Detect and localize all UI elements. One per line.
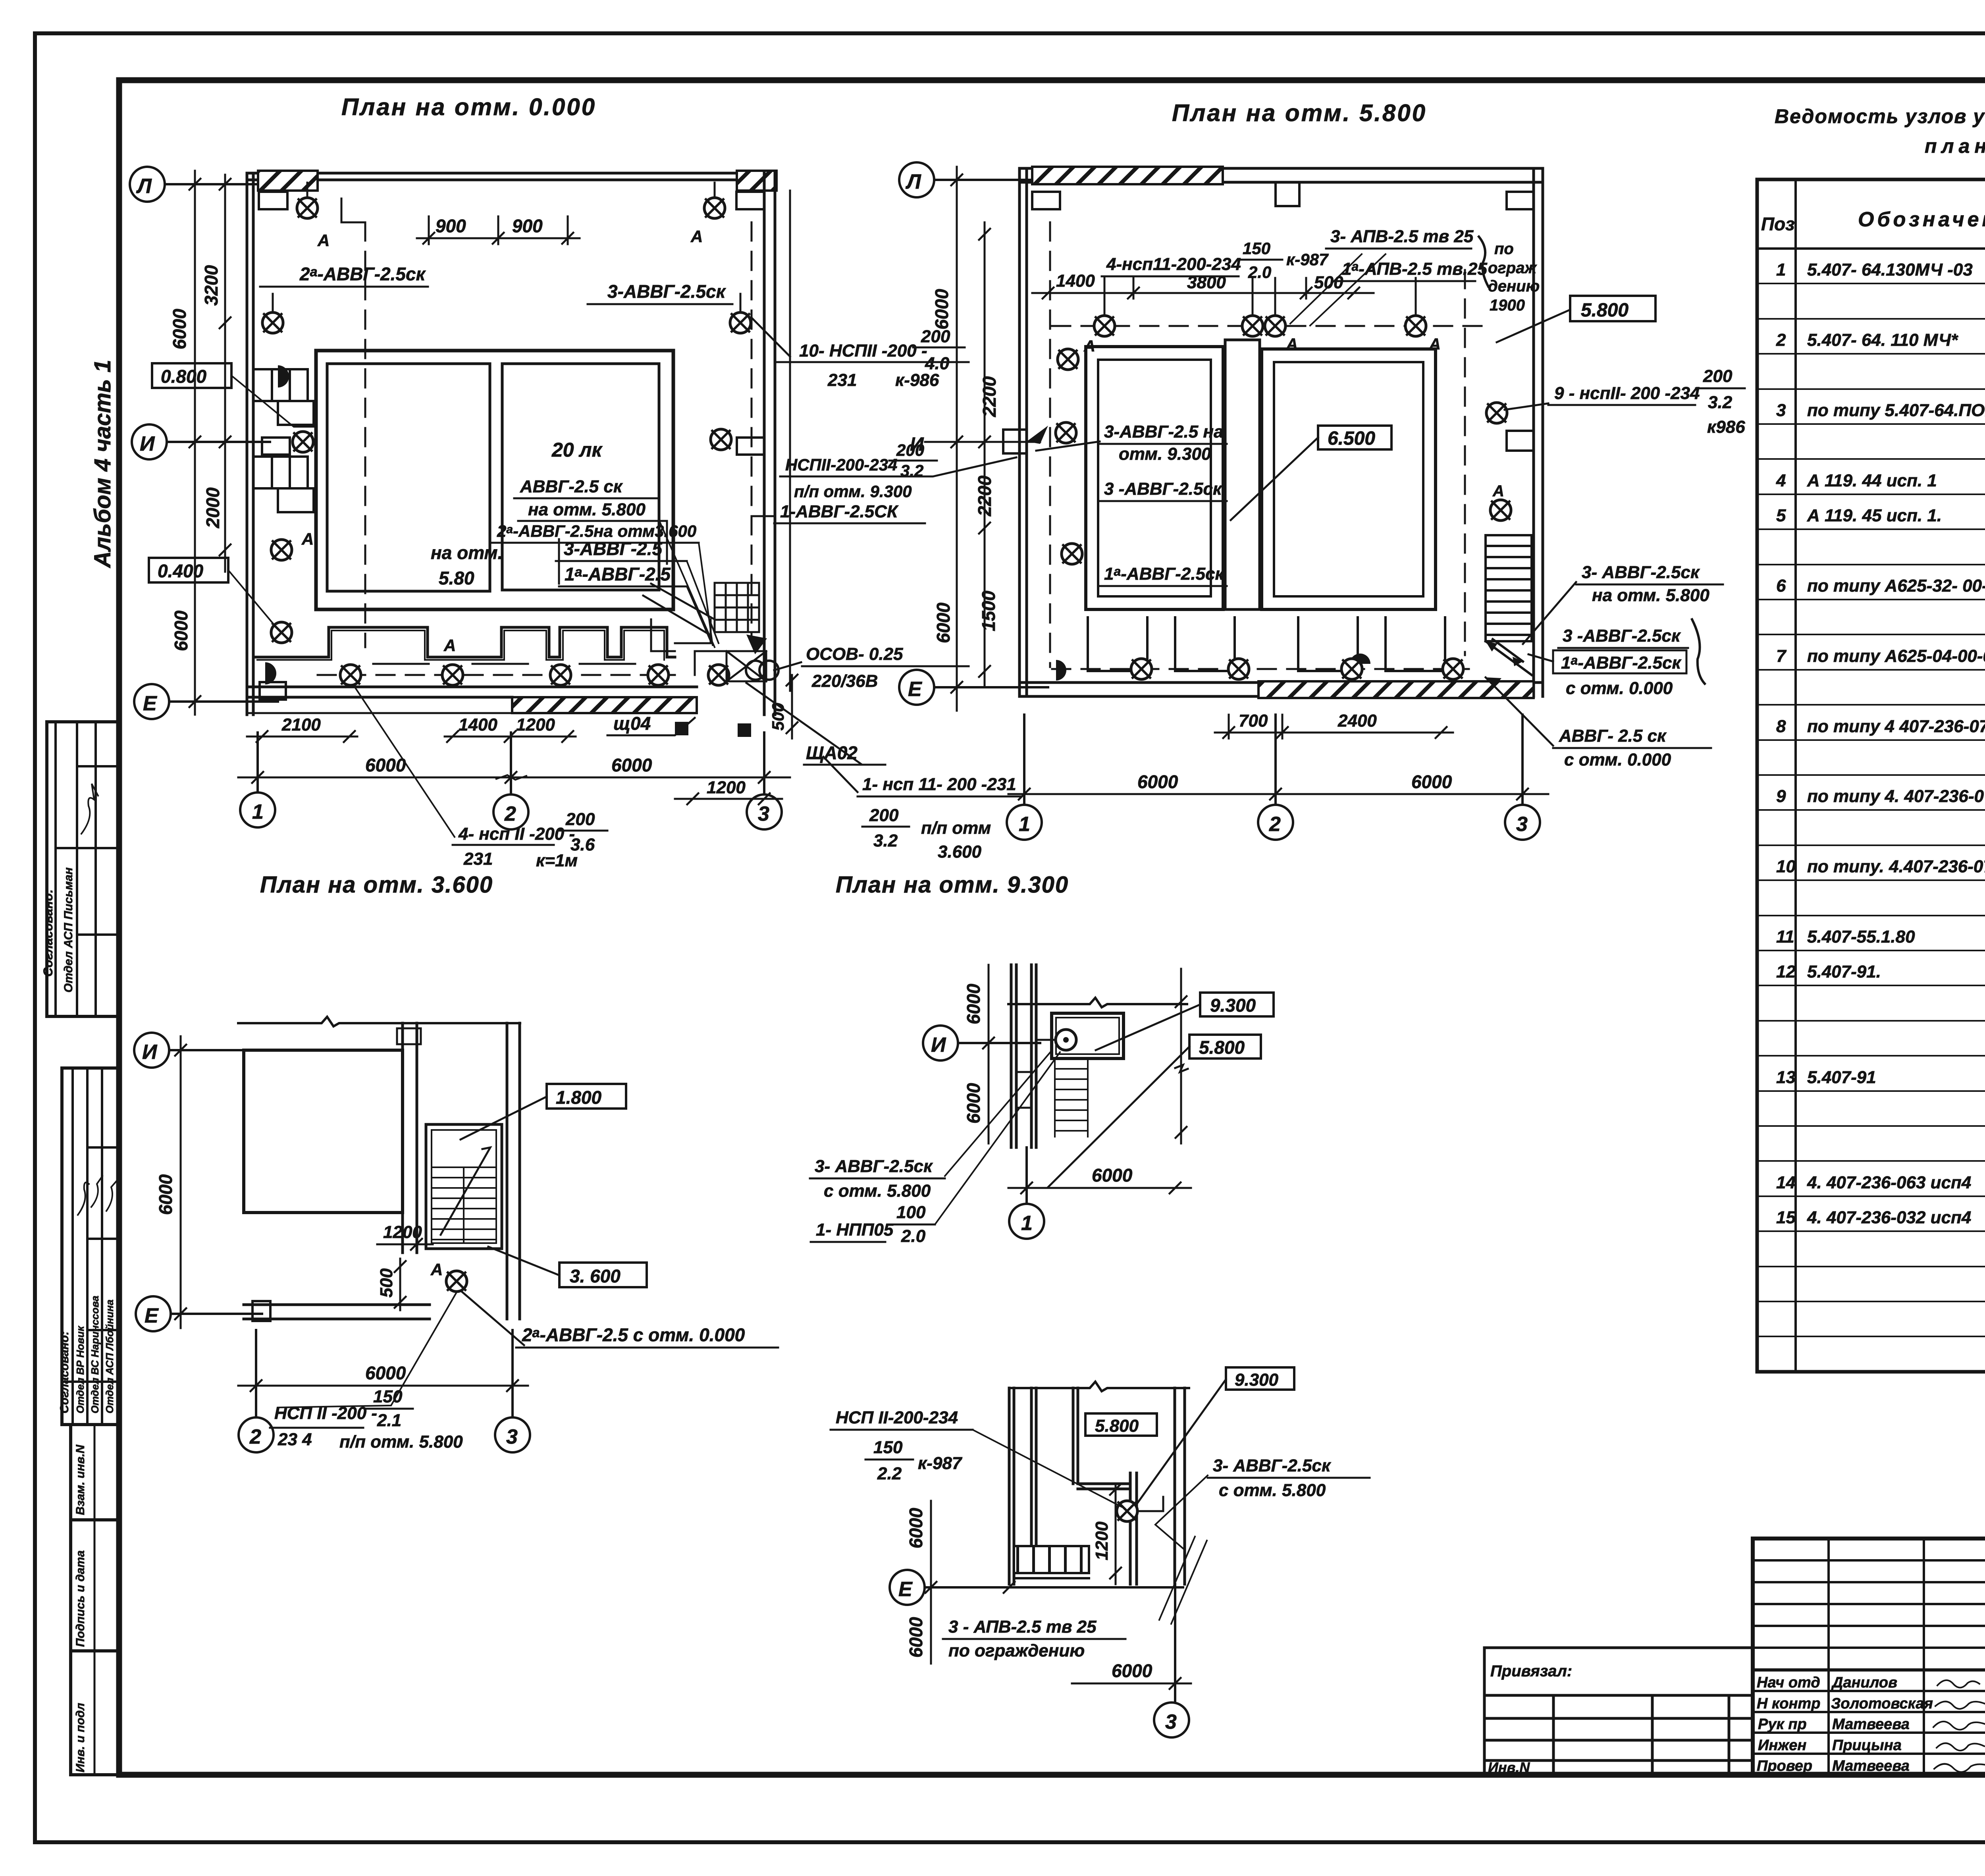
svg-text:1: 1	[252, 800, 264, 823]
svg-text:А: А	[1083, 337, 1095, 355]
svg-text:НСПII-200-234: НСПII-200-234	[785, 455, 897, 474]
svg-text:2а-АВВГ-2.5 с отм. 0.000: 2а-АВВГ-2.5 с отм. 0.000	[522, 1325, 745, 1345]
plan1 corner wiring zigzags	[643, 584, 727, 675]
plan93b mark 5.800	[1085, 1413, 1157, 1436]
plan2 corner arrows	[1486, 639, 1532, 675]
svg-text:4: 4	[1776, 471, 1786, 490]
svg-text:150: 150	[873, 1438, 903, 1457]
svg-text:ограж: ограж	[1488, 259, 1537, 277]
svg-text:А 119. 44 исп. 1: А 119. 44 исп. 1	[1807, 471, 1937, 490]
svg-text:по типу А625-32- 00-00: по типу А625-32- 00-00	[1807, 576, 1985, 596]
svg-text:500: 500	[377, 1268, 396, 1298]
svg-text:с отм. 0.000: с отм. 0.000	[1566, 679, 1673, 698]
svg-text:Е: Е	[908, 678, 922, 701]
plan93a top line	[1008, 998, 1187, 1007]
plan2 building left wall	[1019, 168, 1027, 696]
plan1 feed arrow bottom	[265, 662, 276, 684]
plan93a mid block	[1016, 1072, 1031, 1108]
plan1 wiring dashed vertical	[364, 222, 366, 647]
svg-text:2000: 2000	[202, 487, 223, 528]
svg-text:5.80: 5.80	[439, 568, 474, 588]
svg-text:4-нсп11-200-234: 4-нсп11-200-234	[1106, 255, 1241, 274]
svg-text:по типу А625-04-00-00: по типу А625-04-00-00	[1807, 646, 1985, 666]
svg-text:Отдел ВР Новик: Отдел ВР Новик	[74, 1325, 86, 1413]
plan93b diag arrows	[1159, 1537, 1207, 1624]
svg-text:по типу 4. 407-236-070 исп. 1: по типу 4. 407-236-070 исп. 1	[1807, 787, 1985, 806]
plan1 wiring dashed right	[751, 222, 753, 639]
plan93b walls	[1009, 1388, 1185, 1584]
plan36 mark 1.800	[547, 1084, 626, 1109]
plan2 axis circle 1	[1007, 715, 1042, 840]
plan1 tank outer	[316, 351, 673, 609]
svg-text:с отм. 5.800: с отм. 5.800	[824, 1181, 931, 1201]
plan1 top-right hatched wall	[737, 171, 777, 191]
plan36 lamp	[446, 1271, 467, 1292]
plan1 corner feed wedge	[746, 634, 767, 654]
plan93a mark 9.300	[1200, 993, 1274, 1016]
svg-text:3 -АВВГ-2.5ск: 3 -АВВГ-2.5ск	[1563, 626, 1681, 646]
plan1 lamp left wall	[262, 312, 283, 333]
svg-text:5.407-91.: 5.407-91.	[1807, 962, 1881, 981]
svg-text:Инв. и подл: Инв. и подл	[74, 1703, 87, 1772]
plan1 left dim line 3200/2000	[220, 175, 231, 572]
title block inner lines	[1753, 1539, 1985, 1775]
plan93a bottom dim 6000	[1008, 1182, 1191, 1193]
svg-text:231: 231	[463, 849, 493, 869]
svg-text:плане расположения: плане расположения	[1925, 135, 1985, 157]
plan2 lamps right wall	[1486, 403, 1507, 423]
left stamp block: Инв. и подл	[71, 1651, 120, 1775]
svg-text:План на отм. 0.000: План на отм. 0.000	[341, 94, 596, 120]
plan36 axis circle 3	[495, 1330, 530, 1452]
plan2 dim 1400/3800/500	[1032, 278, 1374, 299]
plan36 axis circle I	[134, 1033, 254, 1068]
svg-text:200: 200	[869, 806, 899, 825]
svg-text:План на отм. 3.600: План на отм. 3.600	[260, 872, 493, 898]
svg-text:АВВГ- 2.5 ск: АВВГ- 2.5 ск	[1559, 726, 1667, 746]
svg-text:3 -АВВГ-2.5ск: 3 -АВВГ-2.5ск	[1104, 479, 1223, 499]
plan1 battlement row	[254, 627, 675, 657]
svg-text:8: 8	[1776, 717, 1786, 736]
svg-text:Е: Е	[145, 1304, 159, 1327]
svg-text:2200: 2200	[979, 376, 1000, 417]
plan2 axis circle 3	[1505, 715, 1540, 840]
svg-text:на отм. 5.800: на отм. 5.800	[528, 500, 646, 519]
plan1 left dim line 6000/6000	[189, 171, 200, 715]
privyazal grid	[1484, 1648, 1753, 1775]
svg-text:6000: 6000	[365, 1363, 406, 1383]
plan93b top line	[1009, 1382, 1189, 1391]
svg-text:Рук пр: Рук пр	[1758, 1716, 1807, 1733]
svg-text:6000: 6000	[171, 610, 191, 651]
plan1 corner X-block	[727, 651, 766, 681]
svg-text:к-987: к-987	[918, 1454, 963, 1473]
svg-text:Ведомость узлов установки э: Ведомость узлов установки электрического…	[1775, 105, 1985, 127]
svg-text:1400: 1400	[1056, 271, 1095, 291]
svg-text:АВВГ-2.5 ск: АВВГ-2.5 ск	[520, 477, 623, 496]
svg-text:2.0: 2.0	[901, 1226, 926, 1246]
svg-text:дению: дению	[1488, 278, 1540, 295]
plan2 bottom bins	[1088, 617, 1445, 671]
svg-text:Л: Л	[136, 175, 152, 198]
svg-text:Обозначение: Обозначение	[1858, 208, 1985, 231]
svg-text:Взам. инв.N: Взам. инв.N	[74, 1444, 87, 1515]
plan2 axis circle L	[899, 162, 1032, 197]
plan2 lamps top row	[1094, 316, 1115, 336]
title block signatures	[1933, 1680, 1985, 1772]
svg-text:А: А	[1492, 482, 1504, 500]
plan2 feed arrow	[1056, 660, 1066, 681]
plan2 left dim 6000s	[951, 167, 962, 711]
plan1 bottom wall	[247, 687, 697, 697]
svg-text:5.407-55.1.80: 5.407-55.1.80	[1807, 927, 1915, 947]
svg-text:2: 2	[1776, 330, 1786, 350]
plan1 inner second wall right	[789, 191, 791, 691]
svg-text:5.800: 5.800	[1095, 1416, 1139, 1436]
svg-text:А: А	[1286, 335, 1298, 353]
plan2 top hatched wall	[1032, 167, 1223, 184]
table entry texts	[1776, 260, 1985, 1263]
plan1 axis circle I	[132, 424, 270, 459]
plan36 right small ledge	[397, 1028, 421, 1044]
table outer frame	[1757, 179, 1985, 1372]
plan1 tank left cell	[327, 364, 490, 591]
left stamp block: Подпись и дата	[71, 1520, 120, 1651]
svg-text:отм. 9.300: отм. 9.300	[1119, 444, 1211, 464]
svg-text:2100: 2100	[281, 715, 321, 735]
plan1 lamp corner	[708, 665, 729, 685]
left stamp signature squiggle	[81, 784, 98, 834]
svg-text:13: 13	[1776, 1068, 1796, 1087]
svg-text:3- АВВГ-2.5ск: 3- АВВГ-2.5ск	[815, 1157, 933, 1176]
svg-text:2.0: 2.0	[1248, 263, 1271, 281]
svg-text:6000: 6000	[1137, 771, 1178, 792]
svg-text:6000: 6000	[611, 755, 652, 775]
plan1 lamp row top: lamp A1	[297, 198, 318, 218]
svg-text:п/п отм. 5.800: п/п отм. 5.800	[339, 1432, 463, 1452]
plan36 room rect	[244, 1050, 403, 1213]
plan36 E axis block	[252, 1301, 270, 1321]
svg-text:1.800: 1.800	[556, 1087, 602, 1108]
plan1 axis circle 3	[747, 733, 782, 829]
plan2 dim 700/2400	[1215, 715, 1453, 738]
svg-text:А: А	[301, 530, 314, 548]
svg-text:2.2: 2.2	[877, 1464, 902, 1483]
plan2 middle strip	[1225, 340, 1260, 609]
plan93a stair box	[1052, 1013, 1124, 1059]
plan1 wire bends	[273, 183, 740, 312]
plan1 leader lines to corner	[659, 520, 719, 647]
svg-text:6000: 6000	[963, 1083, 984, 1124]
plan93b axis circle 3	[1154, 1584, 1189, 1737]
svg-text:И: И	[931, 1033, 946, 1057]
plan2 mark 5.800	[1570, 296, 1655, 321]
svg-text:А 119. 45 исп. 1.: А 119. 45 исп. 1.	[1807, 506, 1942, 525]
svg-text:11: 11	[1776, 927, 1794, 947]
svg-text:к986: к986	[1707, 417, 1745, 437]
svg-text:Матвеева: Матвеева	[1832, 1758, 1910, 1774]
svg-text:3-АВВГ-2.5ск: 3-АВВГ-2.5ск	[607, 281, 727, 302]
svg-text:6000: 6000	[933, 602, 954, 643]
svg-text:231: 231	[827, 370, 857, 390]
svg-text:5.407- 64.130МЧ -03: 5.407- 64.130МЧ -03	[1807, 260, 1973, 280]
svg-text:1200: 1200	[516, 715, 555, 735]
svg-text:к=1м: к=1м	[536, 851, 578, 870]
plan36 room top line	[238, 1017, 520, 1026]
plan2 lamps bottom row	[1131, 659, 1152, 679]
table grid horizontal lines	[1757, 283, 1985, 1336]
svg-text:6: 6	[1776, 576, 1786, 596]
plan1 axis circle L	[130, 167, 262, 202]
svg-text:3- АВВГ-2.5ск: 3- АВВГ-2.5ск	[1213, 1456, 1332, 1475]
plan1 dim 1200 right	[675, 793, 782, 804]
svg-text:3: 3	[1516, 813, 1528, 836]
svg-text:НСП II-200-234: НСП II-200-234	[836, 1408, 958, 1427]
svg-text:12: 12	[1776, 962, 1796, 981]
svg-text:И: И	[910, 434, 924, 455]
svg-text:Л: Л	[905, 170, 921, 193]
plan2 bottom dim 6000 6000	[1008, 789, 1548, 800]
svg-text:1- нсп 11- 200 -231: 1- нсп 11- 200 -231	[862, 775, 1016, 794]
table column lines	[1757, 179, 1985, 1372]
plan1 lamps right wall	[704, 198, 725, 218]
plan2 right wall	[1534, 168, 1543, 696]
svg-text:1200: 1200	[383, 1222, 422, 1242]
plan1 axis circle 1	[240, 733, 275, 827]
svg-text:6000: 6000	[1112, 1660, 1152, 1681]
plan1 building left wall	[247, 173, 253, 715]
svg-text:4- нсп II -200 -: 4- нсп II -200 -	[458, 824, 575, 844]
svg-text:14: 14	[1776, 1173, 1796, 1192]
svg-text:с отм. 0.000: с отм. 0.000	[1564, 750, 1671, 769]
svg-text:щ04: щ04	[613, 713, 651, 734]
svg-text:5.407- 64. 110 МЧ*: 5.407- 64. 110 МЧ*	[1807, 330, 1958, 350]
svg-text:И: И	[142, 1041, 158, 1064]
plan1 top wall	[247, 173, 775, 180]
plan2 stair hatch	[1486, 535, 1532, 641]
left stamp block: Согласовано отделы	[62, 1068, 120, 1425]
svg-text:по ограждению: по ограждению	[948, 1641, 1085, 1660]
plan2 top vent box	[1276, 182, 1299, 206]
svg-text:3: 3	[506, 1425, 518, 1448]
svg-text:3-АВВГ-2.5 на: 3-АВВГ-2.5 на	[1104, 422, 1224, 442]
svg-text:Отдел АСП Письман: Отдел АСП Письман	[62, 868, 75, 993]
svg-text:Отдел АСП Лбойнина: Отдел АСП Лбойнина	[104, 1300, 116, 1413]
plan2 lamps left wall	[1058, 349, 1078, 370]
svg-text:Е: Е	[898, 1578, 913, 1601]
svg-text:Провер: Провер	[1757, 1758, 1812, 1774]
plan1 tank right cell	[502, 364, 659, 590]
svg-text:4. 407-236-063 исп4: 4. 407-236-063 исп4	[1807, 1173, 1971, 1192]
svg-text:1а-АВВГ-2.5ск: 1а-АВВГ-2.5ск	[1104, 564, 1225, 584]
plan2 tank left inner	[1098, 360, 1211, 596]
svg-text:Нач отд: Нач отд	[1757, 1674, 1820, 1691]
svg-text:6000: 6000	[1411, 771, 1452, 792]
plan93b mark 9.300	[1226, 1367, 1294, 1390]
svg-text:3- АПВ-2.5 тв 25: 3- АПВ-2.5 тв 25	[1330, 227, 1474, 246]
svg-text:к-986: к-986	[895, 370, 939, 390]
svg-text:500: 500	[769, 703, 787, 731]
svg-text:0.800: 0.800	[161, 366, 207, 387]
svg-text:0.400: 0.400	[158, 561, 204, 581]
svg-text:ЩА02: ЩА02	[806, 742, 858, 763]
svg-text:9 - нспII- 200 -234: 9 - нспII- 200 -234	[1554, 384, 1700, 403]
svg-text:2: 2	[1269, 813, 1281, 836]
svg-text:1: 1	[1021, 1212, 1033, 1235]
svg-text:5: 5	[1776, 506, 1786, 525]
svg-text:3: 3	[1776, 401, 1786, 420]
svg-text:3 - АПВ-2.5 тв 25: 3 - АПВ-2.5 тв 25	[948, 1617, 1097, 1637]
plan2 bottom hatched wall	[1258, 681, 1534, 698]
svg-text:220/36В: 220/36В	[811, 671, 878, 691]
svg-text:А: А	[443, 636, 456, 655]
plan93b bottom dim 6000	[1072, 1678, 1191, 1689]
plan1 stepped duct left upper	[254, 369, 308, 401]
svg-text:2400: 2400	[1337, 711, 1377, 731]
plan1 axis circle 2	[493, 733, 528, 829]
svg-text:Альбом 4 часть 1: Альбом 4 часть 1	[90, 360, 116, 569]
plan1 axis circle E	[134, 684, 278, 719]
plan1 dim 500 corner	[786, 675, 798, 738]
svg-text:6000: 6000	[931, 289, 952, 330]
plan2 tank right outer	[1262, 349, 1436, 609]
svg-text:Данилов: Данилов	[1831, 1674, 1897, 1691]
svg-text:к-987: к-987	[1286, 250, 1329, 269]
svg-text:Е: Е	[143, 692, 157, 715]
svg-text:1200: 1200	[1092, 1521, 1112, 1560]
svg-text:6000: 6000	[365, 755, 406, 775]
plan2 dashed wiring	[1049, 222, 1051, 667]
svg-text:Согласовано:: Согласовано:	[41, 889, 55, 977]
svg-text:Привязал:: Привязал:	[1490, 1662, 1572, 1680]
plan36 mark 3.600	[559, 1263, 647, 1287]
plan2 bottom wall	[1019, 683, 1543, 696]
plan1 wall pilasters	[259, 192, 764, 700]
svg-text:Н контр: Н контр	[1757, 1695, 1820, 1712]
svg-text:700: 700	[1239, 711, 1268, 731]
plan93a left walls	[1011, 965, 1036, 1147]
svg-text:6000: 6000	[906, 1508, 926, 1548]
plan36 bottom dim 6000	[238, 1380, 528, 1391]
svg-text:А: А	[690, 227, 703, 246]
svg-text:И: И	[140, 432, 155, 455]
svg-text:Матвеева: Матвеева	[1832, 1716, 1910, 1733]
svg-text:3.2: 3.2	[873, 831, 898, 850]
left stamp block: Согласовано / Отдел АСП	[47, 722, 118, 1016]
svg-text:6000: 6000	[1092, 1165, 1133, 1186]
svg-text:1: 1	[1019, 813, 1030, 836]
svg-text:200: 200	[1703, 366, 1733, 386]
svg-text:А: А	[1429, 335, 1441, 353]
plan36 bottom wall	[244, 1305, 430, 1319]
svg-text:Прицына: Прицына	[1832, 1737, 1902, 1754]
title block outer	[1753, 1539, 1985, 1775]
plan36 stair enclosure	[426, 1124, 502, 1249]
plan36 dim 500	[395, 1259, 406, 1310]
svg-text:ОСОВ- 0.25: ОСОВ- 0.25	[806, 644, 903, 664]
svg-text:Подпись и дата: Подпись и дата	[74, 1550, 87, 1647]
svg-text:2: 2	[249, 1425, 261, 1448]
plan1 mark 0.800	[152, 363, 231, 388]
plan93a axis circle I	[923, 1026, 1040, 1060]
plan1 bottom dim 6000 6000	[238, 772, 790, 783]
plan2 top wall	[1019, 168, 1543, 182]
svg-text:10: 10	[1776, 857, 1796, 876]
plan36 right wall	[507, 1023, 520, 1319]
plan93a right dim line	[1175, 969, 1188, 1143]
svg-text:по: по	[1494, 240, 1514, 258]
svg-text:2а-АВВГ-2.5ск: 2а-АВВГ-2.5ск	[299, 264, 426, 284]
plan2 axis circle 2	[1258, 715, 1293, 840]
svg-text:9: 9	[1776, 787, 1786, 806]
svg-text:Отдел ВС Наринссова: Отдел ВС Наринссова	[89, 1296, 101, 1413]
plan1 corner stair grid	[715, 583, 759, 632]
plan93b ladder hatch	[1014, 1546, 1089, 1573]
svg-text:1- НПП05: 1- НПП05	[816, 1220, 894, 1240]
plan2 left dim 2200/2200/1500	[979, 222, 990, 687]
plan1 top-left hatched wall	[258, 171, 318, 191]
svg-text:3. 600: 3. 600	[570, 1266, 621, 1286]
plan1 feed arrow left	[278, 365, 289, 388]
svg-text:А: А	[430, 1260, 443, 1279]
svg-text:3: 3	[758, 802, 769, 825]
svg-text:Поз: Поз	[1761, 214, 1795, 234]
svg-text:План на отм. 5.800: План на отм. 5.800	[1172, 100, 1427, 126]
svg-text:9.300: 9.300	[1210, 995, 1256, 1016]
svg-text:1200: 1200	[707, 778, 746, 797]
plan1 bottom dims 2100/1400/1200	[247, 731, 576, 742]
plan93b lamp	[1117, 1501, 1137, 1521]
plan93b left dim 6000/6000	[925, 1501, 937, 1664]
svg-text:3200: 3200	[201, 265, 222, 306]
svg-text:900: 900	[436, 216, 466, 236]
svg-text:7: 7	[1776, 646, 1787, 666]
plan36 axis circle E	[136, 1296, 262, 1331]
plan1 stepped duct left lower	[254, 457, 308, 488]
svg-text:6000: 6000	[963, 983, 984, 1024]
plan93a axis circle 1	[1009, 1147, 1044, 1239]
plan93b axis circle E	[890, 1570, 1183, 1605]
svg-text:с отм. 5.800: с отм. 5.800	[1219, 1481, 1326, 1500]
svg-text:1900: 1900	[1490, 297, 1525, 314]
svg-text:3.600: 3.600	[938, 842, 982, 862]
svg-text:1400: 1400	[459, 715, 497, 735]
svg-text:23 4: 23 4	[278, 1430, 312, 1449]
svg-text:1: 1	[1776, 260, 1786, 280]
plan1 wiring dashed bottom	[318, 674, 675, 676]
plan36 left dim 6000	[175, 1036, 186, 1328]
svg-text:10- НСПII -200 -: 10- НСПII -200 -	[799, 341, 927, 361]
plan93a mark 5.800	[1189, 1035, 1261, 1059]
svg-text:3: 3	[1165, 1710, 1177, 1733]
svg-text:Золотовская: Золотовская	[1831, 1695, 1933, 1712]
svg-text:Согласовано:: Согласовано:	[58, 1331, 71, 1413]
svg-text:по типу 5.407-64.ПОМЧ-03: по типу 5.407-64.ПОМЧ-03	[1807, 401, 1985, 420]
svg-text:6.500: 6.500	[1328, 428, 1375, 449]
svg-text:3- АВВГ-2.5ск: 3- АВВГ-2.5ск	[1582, 563, 1700, 582]
svg-text:2.1: 2.1	[377, 1411, 401, 1430]
svg-text:20 лк: 20 лк	[551, 439, 603, 461]
svg-text:План на отм. 9.300: План на отм. 9.300	[836, 872, 1069, 898]
svg-text:на отм. 5.800: на отм. 5.800	[1592, 586, 1709, 605]
svg-text:Инв.N: Инв.N	[1488, 1759, 1530, 1776]
svg-text:2: 2	[504, 802, 516, 825]
svg-text:по типу. 4.407-236-070исп.1: по типу. 4.407-236-070исп.1	[1807, 857, 1985, 876]
plan1 dim 900 900	[417, 216, 580, 244]
svg-text:5.800: 5.800	[1581, 300, 1628, 321]
plan1 mark 0.400	[149, 558, 228, 582]
svg-text:Инжен: Инжен	[1758, 1737, 1806, 1754]
